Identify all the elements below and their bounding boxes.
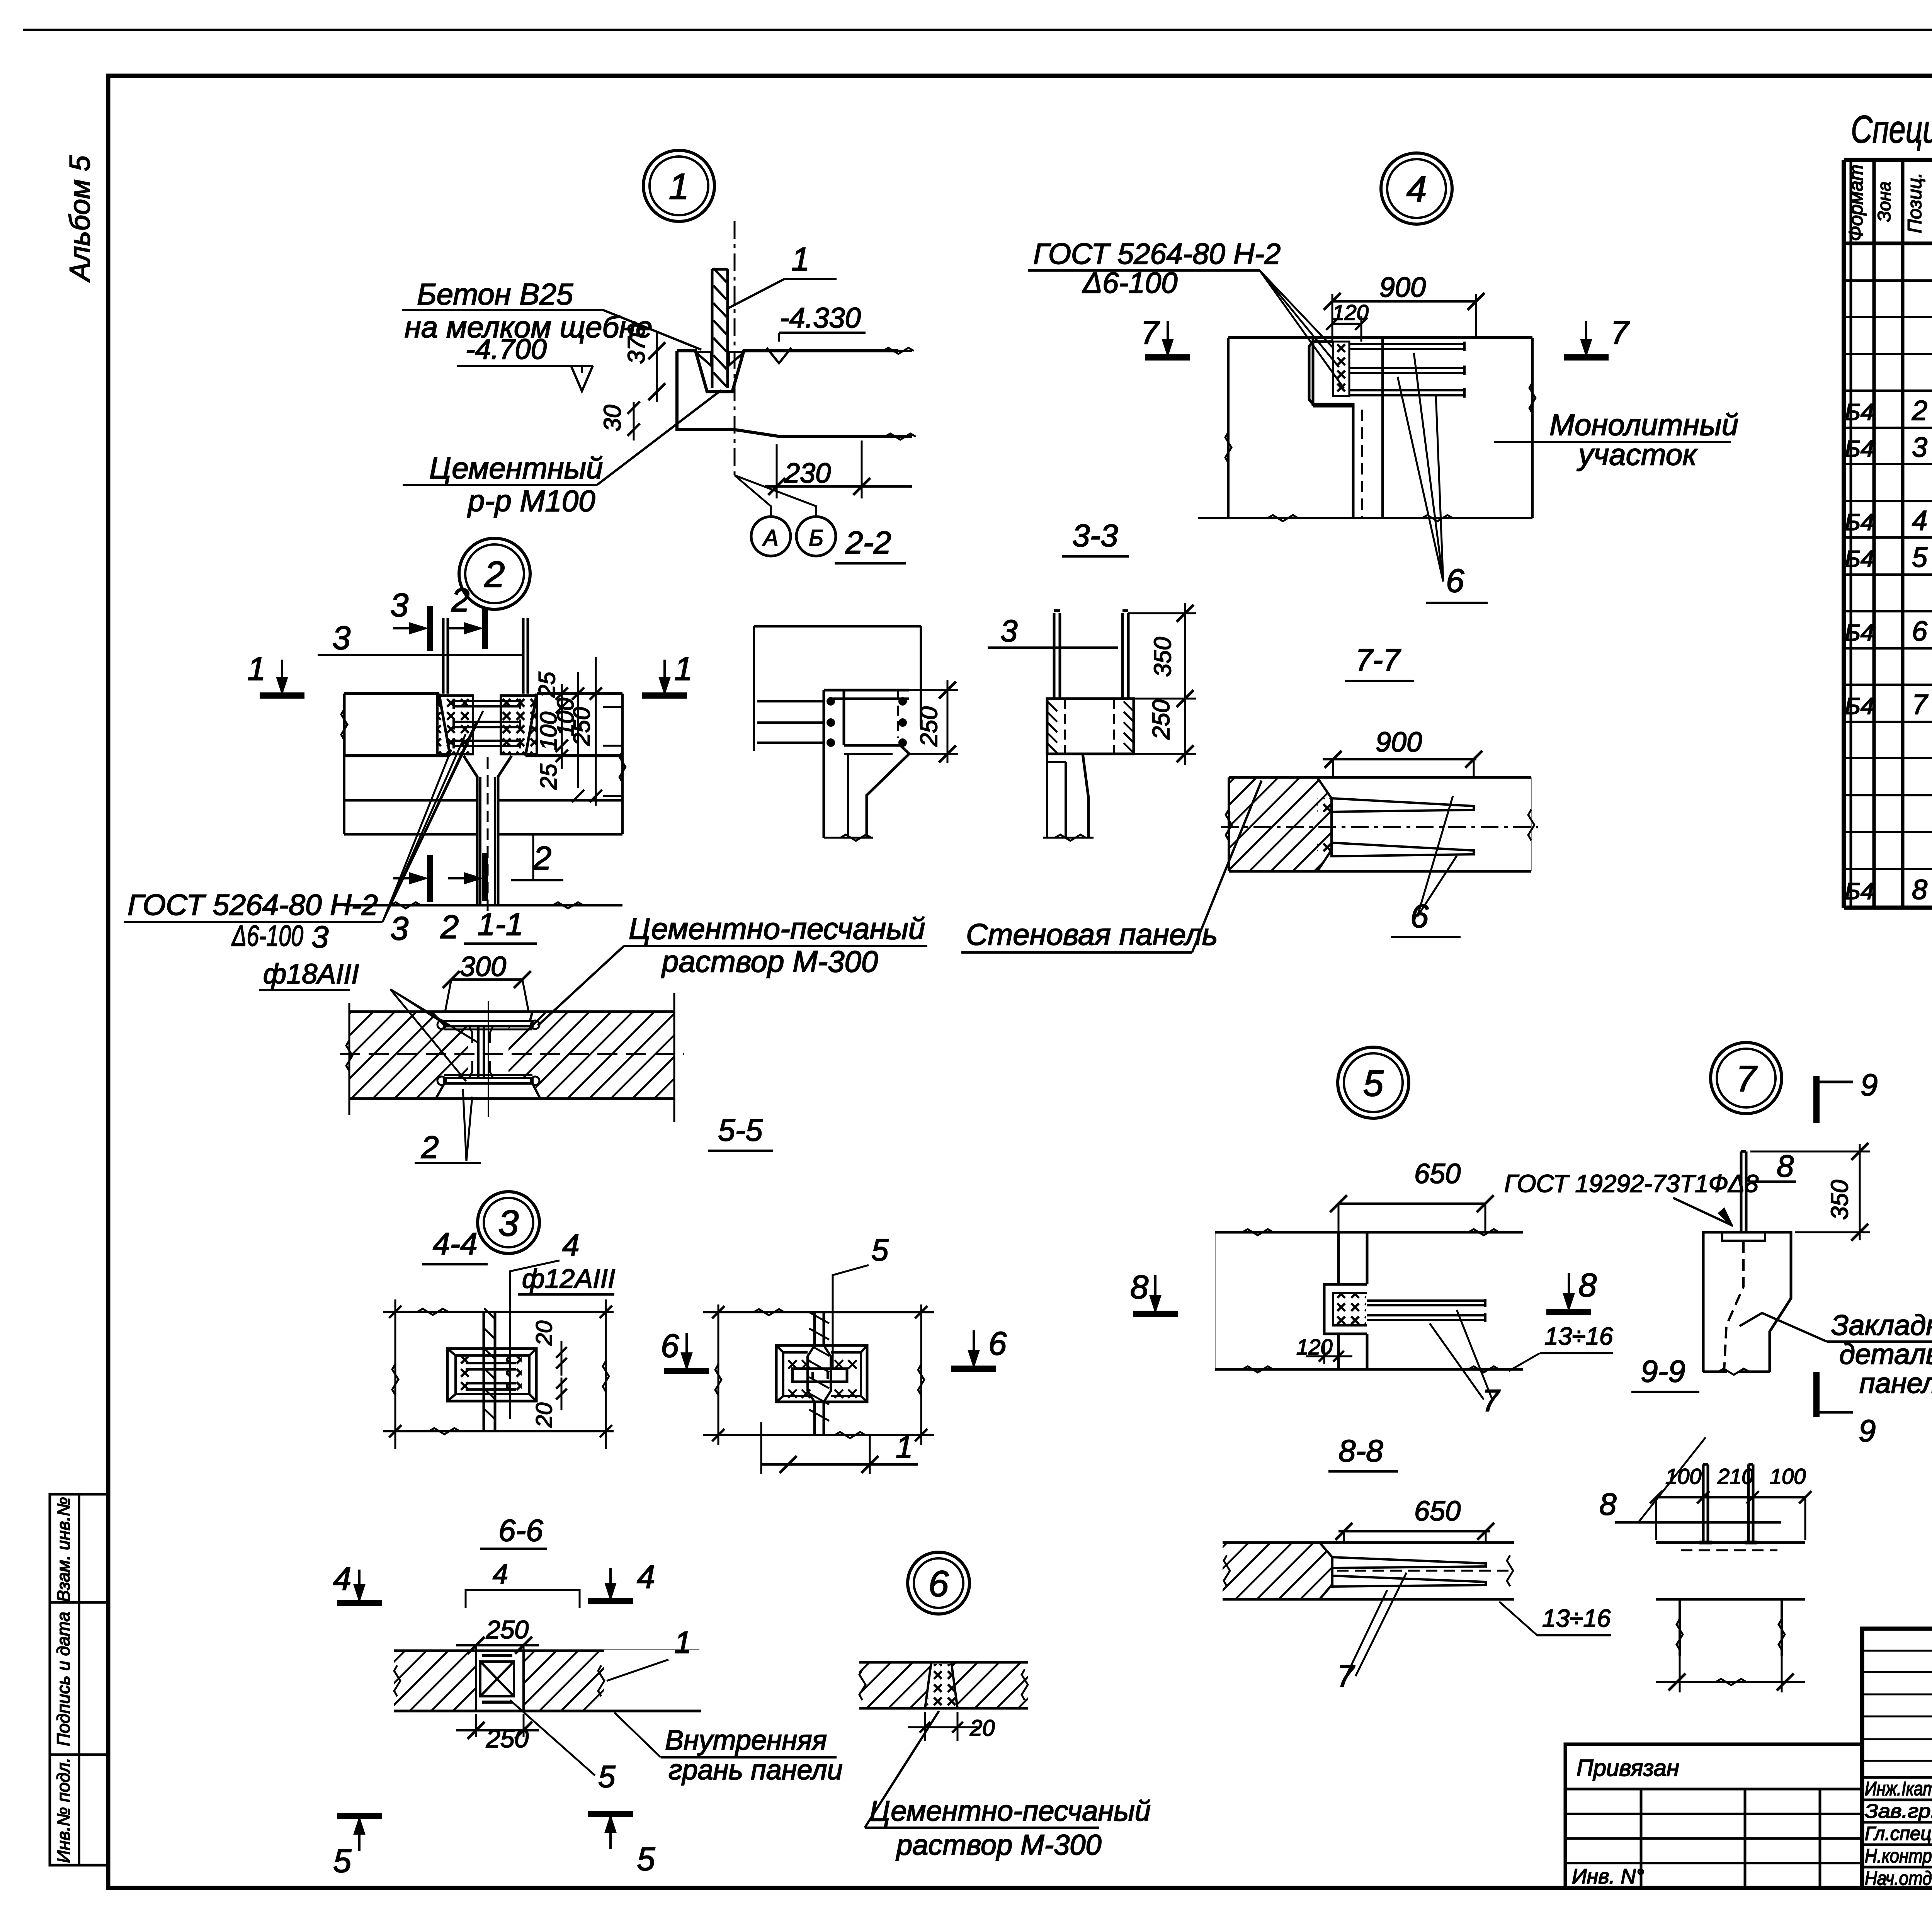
svg-text:3: 3: [332, 620, 350, 656]
svg-text:6: 6: [1446, 563, 1464, 599]
svg-text:13÷16: 13÷16: [1542, 1604, 1611, 1632]
svg-text:Закладная: Закладная: [1831, 1309, 1932, 1341]
svg-text:5: 5: [333, 1843, 352, 1879]
svg-text:Внутренняя: Внутренняя: [665, 1725, 827, 1756]
svg-text:5: 5: [637, 1841, 655, 1878]
svg-text:3: 3: [498, 1203, 519, 1244]
svg-text:5: 5: [1363, 1063, 1384, 1104]
svg-text:Инв.№ подл.: Инв.№ подл.: [53, 1758, 73, 1863]
svg-text:2-2: 2-2: [845, 525, 891, 560]
svg-text:300: 300: [460, 951, 506, 982]
svg-text:7: 7: [1611, 315, 1630, 351]
svg-text:Зав.гр.: Зав.гр.: [1865, 1800, 1932, 1822]
svg-text:ГОСТ 19292-73Т1ФΔ8: ГОСТ 19292-73Т1ФΔ8: [1504, 1170, 1759, 1197]
svg-text:6: 6: [988, 1325, 1007, 1362]
svg-text:1: 1: [791, 241, 810, 278]
svg-text:230: 230: [784, 458, 831, 489]
svg-text:Стеновая панель: Стеновая панель: [966, 917, 1218, 951]
svg-text:7-7: 7-7: [1355, 643, 1401, 677]
svg-text:6: 6: [1912, 616, 1928, 647]
svg-text:8: 8: [1599, 1487, 1617, 1521]
svg-text:ф12АIII: ф12АIII: [522, 1264, 615, 1294]
svg-text:2: 2: [421, 1130, 439, 1165]
svg-text:8: 8: [1578, 1267, 1597, 1304]
svg-text:-4.330: -4.330: [780, 302, 861, 334]
svg-text:20: 20: [532, 1321, 557, 1346]
svg-text:2: 2: [1912, 395, 1927, 426]
svg-text:Инв. N°: Инв. N°: [1572, 1865, 1644, 1888]
svg-text:Б4: Б4: [1845, 436, 1874, 462]
svg-text:4: 4: [1406, 169, 1427, 210]
svg-text:25: 25: [534, 672, 560, 698]
svg-text:Б4: Б4: [1845, 620, 1874, 646]
svg-text:3: 3: [390, 587, 408, 624]
svg-text:Альбом 5: Альбом 5: [64, 155, 96, 283]
svg-text:30: 30: [599, 405, 626, 432]
svg-text:13÷16: 13÷16: [1544, 1322, 1613, 1350]
svg-text:4: 4: [637, 1559, 655, 1595]
svg-text:4: 4: [333, 1561, 351, 1597]
svg-text:650: 650: [1414, 1158, 1461, 1189]
svg-text:А: А: [762, 526, 779, 551]
svg-text:3: 3: [311, 920, 329, 954]
svg-text:Гл.спец.: Гл.спец.: [1865, 1823, 1932, 1844]
svg-text:900: 900: [1379, 272, 1426, 303]
svg-text:7: 7: [1736, 1058, 1758, 1099]
svg-text:8-8: 8-8: [1338, 1434, 1383, 1468]
svg-text:2: 2: [484, 554, 505, 595]
svg-text:Цементно-песчаный: Цементно-песчаный: [629, 912, 925, 946]
svg-text:Н.контр.: Н.контр.: [1865, 1845, 1932, 1867]
svg-text:1: 1: [669, 166, 689, 207]
svg-text:Спецификация: Спецификация: [1851, 108, 1932, 151]
svg-text:Цементный: Цементный: [429, 451, 603, 485]
svg-text:ф18АIII: ф18АIII: [263, 959, 359, 990]
svg-text:ГОСТ 5264-80 Н-2: ГОСТ 5264-80 Н-2: [1033, 238, 1281, 270]
svg-text:5: 5: [1912, 542, 1928, 573]
svg-text:Б4: Б4: [1845, 399, 1874, 425]
svg-text:Инж.Iкат: Инж.Iкат: [1865, 1778, 1932, 1799]
svg-text:Б4: Б4: [1845, 693, 1874, 719]
svg-text:3: 3: [1000, 614, 1018, 648]
svg-text:6: 6: [661, 1328, 679, 1364]
svg-text:3: 3: [390, 910, 408, 947]
svg-text:1: 1: [247, 651, 265, 687]
svg-text:9-9: 9-9: [1641, 1354, 1685, 1388]
svg-text:9: 9: [1861, 1068, 1878, 1102]
svg-text:Привязан: Привязан: [1577, 1755, 1679, 1781]
svg-text:4-4: 4-4: [433, 1226, 478, 1261]
svg-text:Зона: Зона: [1874, 182, 1894, 222]
svg-text:Монолитный: Монолитный: [1549, 408, 1738, 442]
svg-text:раствор М-300: раствор М-300: [661, 944, 878, 978]
svg-text:Б: Б: [809, 526, 823, 551]
svg-text:Δ6-100: Δ6-100: [231, 920, 303, 952]
svg-text:5: 5: [871, 1233, 889, 1267]
svg-text:8: 8: [1777, 1149, 1794, 1183]
svg-text:8: 8: [1130, 1269, 1148, 1306]
svg-text:Подпись и дата: Подпись и дата: [53, 1612, 73, 1746]
svg-text:1-1: 1-1: [478, 907, 524, 942]
svg-text:100: 100: [1770, 1464, 1806, 1488]
svg-text:Цементно-песчаный: Цементно-песчаный: [869, 1795, 1151, 1827]
svg-text:900: 900: [1376, 727, 1422, 758]
svg-text:3-3: 3-3: [1072, 518, 1118, 553]
svg-text:2: 2: [533, 840, 551, 877]
svg-text:7: 7: [1141, 315, 1160, 351]
svg-text:1: 1: [674, 1625, 692, 1660]
svg-text:350: 350: [1827, 1180, 1853, 1219]
svg-text:4: 4: [493, 1559, 508, 1590]
svg-text:Бетон В25: Бетон В25: [417, 277, 573, 311]
svg-text:8: 8: [1912, 874, 1927, 905]
svg-text:7: 7: [1482, 1383, 1500, 1418]
svg-text:р-р М100: р-р М100: [467, 484, 595, 518]
svg-text:Взам. инв.№: Взам. инв.№: [53, 1497, 73, 1602]
svg-text:5: 5: [598, 1759, 616, 1794]
svg-text:раствор М-300: раствор М-300: [896, 1829, 1102, 1861]
svg-text:Позиц.: Позиц.: [1904, 172, 1925, 233]
svg-text:ГОСТ 5264-80 Н-2: ГОСТ 5264-80 Н-2: [128, 889, 378, 922]
svg-text:6: 6: [929, 1563, 949, 1604]
svg-text:Б4: Б4: [1845, 509, 1874, 535]
svg-text:25: 25: [536, 764, 561, 790]
svg-text:2: 2: [440, 909, 459, 946]
svg-text:панели: панели: [1859, 1367, 1932, 1399]
svg-text:100: 100: [1665, 1464, 1701, 1488]
svg-text:грань панели: грань панели: [668, 1755, 843, 1786]
svg-text:5-5: 5-5: [718, 1113, 763, 1147]
svg-text:4: 4: [1912, 505, 1927, 536]
svg-text:250: 250: [569, 707, 595, 746]
svg-text:4: 4: [562, 1228, 580, 1262]
svg-text:Б4: Б4: [1845, 546, 1874, 572]
svg-text:Нач.отд.: Нач.отд.: [1865, 1867, 1932, 1889]
svg-text:на мелком щебне: на мелком щебне: [405, 310, 653, 344]
svg-text:Б4: Б4: [1845, 878, 1874, 904]
svg-text:1: 1: [896, 1430, 913, 1464]
svg-text:250: 250: [1148, 699, 1175, 740]
svg-text:Формат: Формат: [1845, 165, 1867, 241]
svg-text:7: 7: [1912, 689, 1929, 720]
svg-text:2: 2: [451, 582, 469, 619]
svg-text:3: 3: [1912, 432, 1927, 463]
svg-text:250: 250: [916, 706, 942, 747]
svg-text:350: 350: [1150, 637, 1176, 677]
svg-text:деталь: деталь: [1839, 1338, 1932, 1370]
svg-text:250: 250: [486, 1615, 529, 1644]
svg-text:650: 650: [1414, 1496, 1461, 1527]
svg-text:6-6: 6-6: [498, 1513, 543, 1548]
svg-text:20: 20: [532, 1403, 557, 1428]
svg-text:1: 1: [674, 651, 692, 687]
svg-text:250: 250: [486, 1724, 529, 1753]
svg-text:9: 9: [1859, 1413, 1876, 1448]
